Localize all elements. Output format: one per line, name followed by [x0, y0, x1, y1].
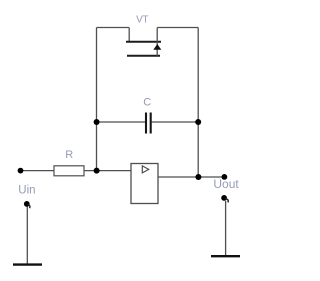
node Uin terminal: [18, 168, 24, 174]
svg-text:Uout: Uout: [213, 177, 239, 191]
svg-text:C: C: [143, 96, 151, 108]
wire hook Uout terminal: [225, 198, 228, 202]
node junction right-capacitor: [195, 119, 201, 125]
transistor VT: [126, 28, 161, 56]
wire Uin ground vertical: [26, 207, 28, 264]
wire resistor to op-amp: [84, 170, 131, 172]
node junction left-vertical main wire: [94, 168, 100, 174]
wire left vertical: [96, 28, 98, 171]
ground right: [211, 255, 240, 257]
wire output: [158, 176, 224, 178]
wire top-right horizontal: [157, 27, 198, 29]
wire hook Uin terminal: [28, 204, 31, 208]
capacitor C: [146, 113, 151, 134]
node Uout ground terminal: [221, 195, 227, 201]
wire top-left horizontal: [97, 27, 130, 29]
node Uin ground terminal: [24, 201, 30, 207]
ground left: [13, 263, 42, 265]
svg-text:VT: VT: [136, 15, 148, 26]
wire capacitor right: [152, 121, 199, 123]
node junction left-capacitor: [94, 119, 100, 125]
wire capacitor left: [97, 121, 146, 123]
wire right vertical: [197, 28, 199, 178]
op-amp U1: [131, 164, 158, 204]
wire input: [21, 170, 55, 172]
svg-text:Uin: Uin: [18, 184, 35, 196]
svg-text:R: R: [65, 149, 73, 161]
resistor R: [54, 166, 84, 176]
node Uout terminal: [222, 174, 228, 180]
wire Uout ground vertical: [225, 201, 227, 255]
node junction right-vertical output: [195, 174, 201, 180]
